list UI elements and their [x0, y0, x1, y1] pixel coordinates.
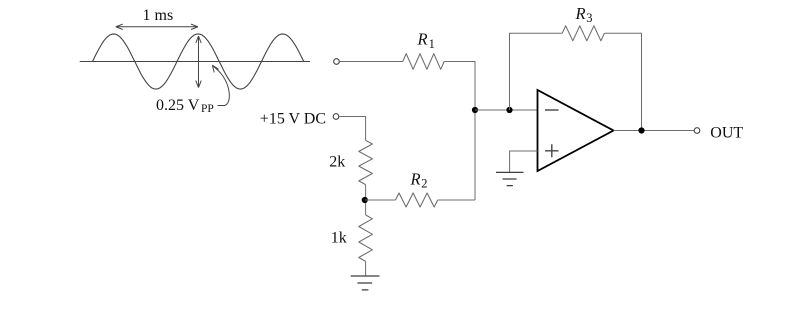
svg-text:R: R [410, 170, 421, 189]
ground (divider bottom) [351, 276, 380, 290]
svg-text:2k: 2k [329, 153, 345, 170]
wire non-inverting input to ground [510, 151, 538, 172]
sine waveform (2.5 cycles) [93, 34, 304, 89]
+15V terminal [333, 114, 339, 120]
input terminal [334, 59, 340, 65]
resistor 2k [359, 140, 373, 184]
node divider tap [362, 197, 368, 203]
node junction B (feedback tap) [506, 107, 512, 113]
op-amp minus sign [545, 109, 559, 111]
node junction A [472, 107, 478, 113]
curved pointer arrow to waveform [212, 65, 229, 105]
svg-text:+15 V DC: +15 V DC [260, 111, 326, 128]
svg-text:2: 2 [421, 177, 427, 191]
sine-wave source waveform axis [80, 61, 310, 63]
svg-text:PP: PP [201, 103, 214, 115]
svg-text:1k: 1k [331, 229, 347, 246]
wire R1 to junction, vertical down to R2 [444, 62, 475, 201]
svg-text:R: R [575, 4, 586, 23]
ground (op-amp + input) [496, 172, 524, 185]
wire 1k to ground [365, 261, 367, 276]
wire feedback right riser to output [604, 33, 641, 130]
op-amp U1 [538, 90, 614, 171]
op-amp plus sign [545, 144, 559, 157]
wire feedback left riser [510, 33, 563, 110]
resistor R2 [396, 193, 438, 207]
wire input to R1 [339, 61, 402, 63]
amplitude dimension arrow (0.25 Vpp) [196, 36, 201, 88]
wire +15V to 2k [339, 117, 366, 141]
svg-text:R: R [417, 30, 428, 49]
node output junction [638, 127, 644, 133]
svg-text:OUT: OUT [710, 124, 743, 141]
svg-text:1: 1 [429, 37, 435, 51]
wire op-amp output [614, 130, 695, 132]
wire 2k to 1k through node [365, 185, 367, 215]
svg-text:3: 3 [586, 11, 592, 25]
resistor 1k [359, 215, 373, 262]
wire junction A to op-amp inverting input [475, 109, 538, 111]
svg-text:1 ms: 1 ms [143, 7, 174, 24]
output terminal [694, 128, 700, 134]
period dimension arrow (1 ms) [116, 24, 198, 29]
wire R2 to junction riser [438, 199, 475, 201]
resistor R3 [562, 26, 604, 41]
svg-text:0.25 V: 0.25 V [156, 97, 200, 114]
resistor R1 [403, 54, 445, 70]
wire node to R2 [365, 199, 396, 201]
